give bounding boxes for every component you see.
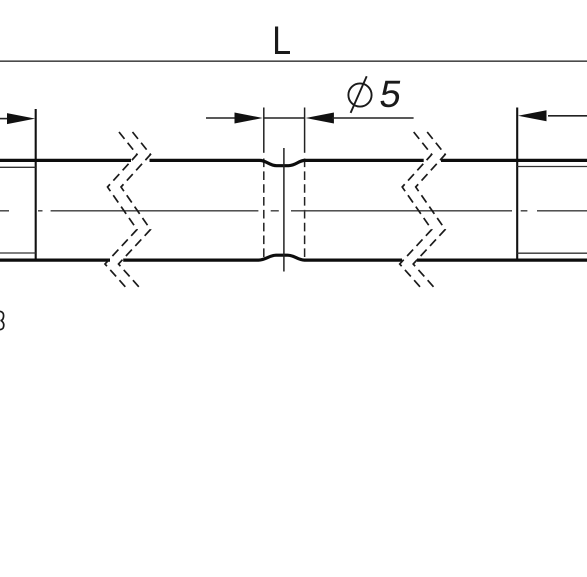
- break line right (zigzag 1): [400, 132, 432, 287]
- extension line / thread end line left: [35, 109, 37, 261]
- center mark vertical: [283, 148, 285, 272]
- centerline: [0, 210, 587, 212]
- hidden line Ø5 right (dashed through rod): [304, 159, 306, 258]
- dimension line L: [0, 60, 587, 62]
- hidden line Ø5 left (dashed through rod): [263, 159, 265, 258]
- extension line Ø5 right (solid above rod): [304, 108, 306, 153]
- extension line Ø5 left (solid above rod): [263, 108, 265, 153]
- dimension Ø5 arrows and lines: [206, 113, 414, 124]
- thread root line bottom right: [517, 252, 587, 254]
- extension line / thread end line right: [516, 108, 518, 261]
- break line left (zigzag 1): [105, 132, 137, 287]
- break line left (zigzag 2): [119, 132, 151, 287]
- label Ø5: [348, 76, 401, 113]
- rod top outline: [0, 160, 587, 165]
- thread root line bottom left: [0, 252, 36, 254]
- rod bottom outline: [0, 255, 587, 260]
- dimension line b right: [518, 110, 587, 121]
- label L: [275, 26, 290, 54]
- cropped label fragment bottom left: [0, 311, 4, 329]
- break line right (zigzag 2): [413, 132, 445, 287]
- thread root line top right: [517, 166, 587, 168]
- thread root line top left: [0, 166, 36, 168]
- dimension line b left: [0, 113, 35, 124]
